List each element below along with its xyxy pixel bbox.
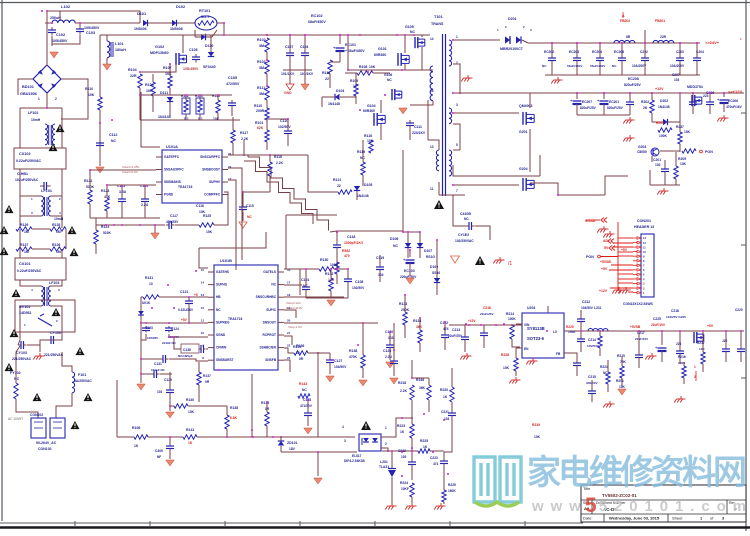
svg-text:T101: T101 <box>434 15 443 19</box>
svg-text:L231: L231 <box>594 306 601 310</box>
svg-text:C138: C138 <box>183 348 191 352</box>
svg-text:2.2K: 2.2K <box>276 161 284 165</box>
svg-text:R111: R111 <box>257 86 265 90</box>
svg-text:90-264V_AC: 90-264V_AC <box>36 441 57 445</box>
svg-text:GATEHS: GATEHS <box>216 270 229 274</box>
svg-text:R127: R127 <box>20 243 28 247</box>
svg-text:NC: NC <box>410 30 415 34</box>
svg-text:SNSOUT: SNSOUT <box>263 320 276 324</box>
svg-text:100R: 100R <box>330 263 339 267</box>
svg-text:+12V: +12V <box>655 87 664 91</box>
svg-text:0.22U/26V: 0.22U/26V <box>178 308 194 312</box>
svg-text:2.2U: 2.2U <box>385 355 393 359</box>
svg-text:C105: C105 <box>228 76 237 80</box>
svg-text:14D561: 14D561 <box>19 311 32 315</box>
svg-text:CY1E2: CY1E2 <box>458 233 469 237</box>
svg-text:R140: R140 <box>186 398 194 402</box>
svg-text:10K: 10K <box>503 366 510 370</box>
svg-text:F101: F101 <box>78 373 86 377</box>
svg-text:R136: R136 <box>296 344 304 348</box>
svg-text:C8050: C8050 <box>637 150 647 154</box>
svg-text:Vstart=0.9V: Vstart=0.9V <box>122 170 138 174</box>
svg-text:SNSAUXPFC: SNSAUXPFC <box>164 168 184 172</box>
svg-text:w w w . 5 2 0 1 0 1 . c o m: w w w . 5 2 0 1 0 1 . c o m <box>531 498 746 515</box>
svg-text:100K: 100K <box>508 317 516 321</box>
svg-text:RV101: RV101 <box>19 305 31 309</box>
svg-text:G201: G201 <box>519 130 528 134</box>
svg-text:NC: NC <box>542 64 547 68</box>
svg-text:GATEPFC: GATEPFC <box>164 155 180 159</box>
svg-text:FY102: FY102 <box>10 371 21 375</box>
svg-text:EC206: EC206 <box>728 99 738 103</box>
svg-text:160K: 160K <box>448 489 456 493</box>
svg-text:1N4148: 1N4148 <box>357 194 369 198</box>
svg-text:U01K: U01K <box>142 301 151 305</box>
svg-text:10K: 10K <box>188 410 195 414</box>
svg-text:474: 474 <box>443 327 449 331</box>
svg-text:C101: C101 <box>301 278 309 282</box>
svg-text:PON: PON <box>705 150 713 154</box>
svg-text:0.22uF/250VAC: 0.22uF/250VAC <box>17 269 42 273</box>
svg-text:21: 21 <box>287 331 291 335</box>
svg-text:CON102: CON102 <box>30 413 43 417</box>
svg-text:1N5408: 1N5408 <box>170 27 183 31</box>
svg-text:R224: R224 <box>400 481 408 485</box>
svg-text:G106: G106 <box>384 73 392 77</box>
svg-text:R223: R223 <box>397 424 405 428</box>
svg-text:R225: R225 <box>420 439 428 443</box>
svg-text:SUPREG: SUPREG <box>216 320 230 324</box>
svg-text:+12V: +12V <box>468 319 476 323</box>
svg-text:C213: C213 <box>452 328 460 332</box>
svg-text:SNSBURST: SNSBURST <box>216 358 234 362</box>
svg-text:C127: C127 <box>334 359 342 363</box>
svg-text:15: 15 <box>201 268 205 272</box>
svg-text:R110: R110 <box>254 104 262 108</box>
svg-text:NC: NC <box>216 308 221 312</box>
svg-text:R109: R109 <box>350 79 358 83</box>
svg-text:R248: R248 <box>416 378 424 382</box>
svg-text:SNSBOOST: SNSBOOST <box>202 168 220 172</box>
svg-text:470K: 470K <box>349 355 358 359</box>
svg-text:221/250VAC: 221/250VAC <box>12 357 32 361</box>
svg-text:R121: R121 <box>333 178 341 182</box>
svg-text:56uF/160V: 56uF/160V <box>590 64 606 68</box>
svg-text:EC202: EC202 <box>544 50 554 54</box>
svg-text:EL817: EL817 <box>352 454 362 458</box>
svg-text:/1: /1 <box>508 261 512 267</box>
svg-text:7: 7 <box>456 189 458 193</box>
svg-text:D107: D107 <box>424 249 432 253</box>
svg-text:C212: C212 <box>582 300 590 304</box>
svg-text:C117: C117 <box>170 214 178 218</box>
svg-text:101nF NC: 101nF NC <box>151 368 166 372</box>
svg-text:GATELS: GATELS <box>263 270 276 274</box>
svg-text:R217: R217 <box>697 341 705 345</box>
svg-text:102/250VAC: 102/250VAC <box>455 239 474 243</box>
svg-text:Wednesday, June 03, 2015: Wednesday, June 03, 2015 <box>609 516 660 521</box>
svg-text:820uF/25V: 820uF/25V <box>624 83 642 87</box>
svg-text:R130: R130 <box>320 258 328 262</box>
svg-text:R221: R221 <box>600 365 608 369</box>
svg-text:5: 5 <box>585 494 597 517</box>
svg-text:1: 1 <box>694 365 696 369</box>
svg-text:100K: 100K <box>678 361 686 365</box>
svg-text:2.2K: 2.2K <box>400 389 408 393</box>
svg-text:NC: NC <box>302 388 307 392</box>
svg-text:470uF/16V: 470uF/16V <box>726 105 743 109</box>
svg-text:820uF/25V: 820uF/25V <box>607 106 624 110</box>
svg-text:22: 22 <box>337 184 341 188</box>
svg-text:Vstart=1.25V: Vstart=1.25V <box>122 165 139 169</box>
svg-text:CON102: CON102 <box>38 447 52 451</box>
svg-text:R101: R101 <box>255 121 263 125</box>
svg-text:R204: R204 <box>656 121 664 125</box>
svg-text:R143: R143 <box>299 382 307 386</box>
svg-text:474: 474 <box>433 462 439 466</box>
svg-text:103: 103 <box>157 390 163 394</box>
svg-text:62K: 62K <box>257 126 264 130</box>
svg-text:NC: NC <box>14 377 20 381</box>
svg-text:101/1KV: 101/1KV <box>281 72 295 76</box>
svg-text:TEA1716: TEA1716 <box>228 317 242 321</box>
svg-text:D106: D106 <box>390 237 398 241</box>
svg-text:102/50V: 102/50V <box>278 125 291 129</box>
svg-text:471/50V: 471/50V <box>300 404 313 408</box>
svg-text:SOT23-6: SOT23-6 <box>527 336 545 341</box>
svg-text:FB201: FB201 <box>655 19 665 23</box>
svg-text:U203: U203 <box>527 306 535 310</box>
svg-text:PGND: PGND <box>164 193 174 197</box>
svg-text:LF101: LF101 <box>41 189 52 193</box>
svg-text:10K: 10K <box>699 347 705 351</box>
svg-text:C223: C223 <box>430 456 438 460</box>
svg-text:10A/200V: 10A/200V <box>670 64 685 68</box>
svg-text:R124: R124 <box>101 225 109 229</box>
svg-text:C207: C207 <box>672 73 680 77</box>
svg-text:SNSMAINS: SNSMAINS <box>164 180 181 184</box>
svg-text:R125: R125 <box>203 214 211 218</box>
svg-text:G104: G104 <box>367 104 376 108</box>
svg-text:U101B: U101B <box>220 259 232 263</box>
svg-text:R138: R138 <box>230 406 238 410</box>
svg-text:102/50V: 102/50V <box>352 286 365 290</box>
svg-text:36K: 36K <box>419 386 426 390</box>
svg-text:+5VSB: +5VSB <box>630 325 641 329</box>
svg-text:472/50V: 472/50V <box>226 82 240 86</box>
svg-text:10K: 10K <box>369 65 376 69</box>
svg-text:R110: R110 <box>85 87 93 91</box>
svg-text:75K: 75K <box>620 360 627 364</box>
svg-text:C201: C201 <box>653 158 661 162</box>
svg-text:AC 100/9T: AC 100/9T <box>8 417 23 421</box>
svg-text:R214: R214 <box>506 312 514 316</box>
svg-text:3M: 3M <box>259 44 264 48</box>
svg-text:8R: 8R <box>626 35 631 39</box>
svg-text:R118: R118 <box>274 155 282 159</box>
svg-text:EC102: EC102 <box>311 14 323 18</box>
svg-text:EC206: EC206 <box>614 50 624 54</box>
svg-text:D102: D102 <box>176 5 185 9</box>
svg-text:EC207: EC207 <box>582 100 592 104</box>
svg-text:13: 13 <box>430 145 434 149</box>
svg-text:NC: NC <box>612 64 617 68</box>
svg-text:NC: NC <box>247 215 252 219</box>
svg-text:22uF/25V: 22uF/25V <box>480 312 495 316</box>
svg-text:103: 103 <box>674 78 680 82</box>
svg-text:103: 103 <box>401 455 407 459</box>
svg-text:SY8113B: SY8113B <box>527 326 545 331</box>
svg-text:HB: HB <box>216 295 221 299</box>
svg-text:SUPHS: SUPHS <box>216 283 227 287</box>
svg-text:104/25V G205: 104/25V G205 <box>666 315 686 319</box>
svg-text:R116: R116 <box>364 134 372 138</box>
svg-text:R218: R218 <box>398 381 406 385</box>
svg-text:10K: 10K <box>680 162 687 166</box>
svg-text:6.8K: 6.8K <box>230 416 238 420</box>
svg-text:D111: D111 <box>160 91 168 95</box>
svg-text:3: 3 <box>344 439 346 443</box>
svg-text:家电维修资料网: 家电维修资料网 <box>527 454 747 492</box>
svg-text:R542: R542 <box>342 249 350 253</box>
svg-text:L201: L201 <box>380 460 388 464</box>
svg-text:C214: C214 <box>588 338 596 342</box>
svg-text:SS36: SS36 <box>432 271 440 275</box>
svg-text:C103: C103 <box>86 31 95 35</box>
svg-text:101/1KV: 101/1KV <box>300 72 314 76</box>
svg-text:R141: R141 <box>186 428 194 432</box>
svg-text:C216: C216 <box>483 306 491 310</box>
svg-text:Sheet: Sheet <box>672 516 683 521</box>
svg-text:56uF/160V: 56uF/160V <box>567 64 583 68</box>
svg-text:RS1G: RS1G <box>426 255 435 259</box>
svg-text:Vstart=110V: Vstart=110V <box>286 306 302 310</box>
svg-text:NC: NC <box>387 78 392 82</box>
svg-text:R201: R201 <box>616 379 624 383</box>
svg-text:C107: C107 <box>285 45 293 49</box>
svg-text:C225: C225 <box>653 317 661 321</box>
svg-text:60R360: 60R360 <box>374 53 386 57</box>
svg-text:+5: +5 <box>194 293 198 297</box>
svg-text:G204: G204 <box>519 167 528 171</box>
svg-text:1N5406: 1N5406 <box>134 27 147 31</box>
svg-text:22R: 22R <box>660 35 667 39</box>
svg-text:C131: C131 <box>154 362 162 366</box>
svg-text:R131: R131 <box>145 276 153 280</box>
svg-text:C116: C116 <box>196 204 204 208</box>
svg-text:NC: NC <box>271 283 276 287</box>
svg-text:FB: FB <box>556 352 561 356</box>
svg-text:R108: R108 <box>359 65 367 69</box>
svg-text:5V: 5V <box>604 246 609 250</box>
svg-text:104/50V: 104/50V <box>581 306 594 310</box>
svg-text:+5V: +5V <box>181 318 188 322</box>
svg-text:16: 16 <box>430 89 434 93</box>
svg-text:1K: 1K <box>188 441 193 445</box>
svg-text:Vstup=12V: Vstup=12V <box>286 301 301 305</box>
svg-text:22uF/10V: 22uF/10V <box>635 337 648 341</box>
svg-text:BD101: BD101 <box>22 85 34 89</box>
svg-text:PON: PON <box>586 255 594 259</box>
svg-text:3M: 3M <box>259 66 264 70</box>
svg-text:EC103: EC103 <box>404 269 415 273</box>
svg-text:C121: C121 <box>180 290 188 294</box>
svg-text:18V: 18V <box>289 447 296 451</box>
svg-text:R229: R229 <box>566 325 574 329</box>
svg-text:CY103: CY103 <box>16 351 27 355</box>
svg-text:TRANS: TRANS <box>431 22 444 26</box>
svg-text:105/26V: 105/26V <box>147 336 158 340</box>
svg-text:D105: D105 <box>364 183 372 187</box>
svg-text:22: 22 <box>287 344 291 348</box>
svg-text:G101: G101 <box>378 47 387 51</box>
svg-text:10K: 10K <box>165 72 172 76</box>
svg-text:CX102: CX102 <box>19 152 31 156</box>
svg-text:820uF/25V: 820uF/25V <box>580 106 597 110</box>
svg-text:R225: R225 <box>448 483 456 487</box>
svg-text:R114: R114 <box>322 71 330 75</box>
svg-text:SO-7: SO-7 <box>201 15 209 19</box>
svg-text:LF103: LF103 <box>49 281 59 285</box>
svg-text:1000pF/1KV: 1000pF/1KV <box>344 241 364 245</box>
svg-text:DIP4-2.54K1B: DIP4-2.54K1B <box>344 459 365 463</box>
svg-text:>>24V+: >>24V+ <box>705 40 720 45</box>
svg-text:2: 2 <box>55 97 57 101</box>
svg-text:5A/250VAC: 5A/250VAC <box>74 379 92 383</box>
svg-text:C410B: C410B <box>460 212 471 216</box>
svg-text:10S/450V: 10S/450V <box>183 67 199 71</box>
svg-text:1: 1 <box>385 426 387 430</box>
svg-text:105/450V: 105/450V <box>84 26 100 30</box>
svg-text:C108: C108 <box>355 280 363 284</box>
svg-text:COMPPFC: COMPPFC <box>204 193 221 197</box>
svg-text:68uF/450V: 68uF/450V <box>308 20 326 24</box>
svg-text:223: 223 <box>703 94 709 98</box>
svg-text:SGND: SGND <box>216 333 226 337</box>
svg-text:3: 3 <box>456 103 458 107</box>
svg-text:RCPROT: RCPROT <box>263 333 277 337</box>
svg-text:C102: C102 <box>56 33 65 37</box>
svg-text:+5V: +5V <box>601 267 608 271</box>
svg-text:R138: R138 <box>349 349 357 353</box>
svg-text:D104: D104 <box>336 89 344 93</box>
svg-text:10K: 10K <box>619 385 626 389</box>
svg-text:R228: R228 <box>501 353 509 357</box>
svg-text:R106: R106 <box>132 426 140 430</box>
svg-text:R104: R104 <box>128 68 137 72</box>
svg-text:EC203: EC203 <box>569 50 579 54</box>
svg-text:D202: D202 <box>660 99 668 103</box>
svg-text:223/1KV: 223/1KV <box>412 131 426 135</box>
svg-text:CON201: CON201 <box>637 219 651 223</box>
svg-text:102uF/250VAC: 102uF/250VAC <box>15 178 39 182</box>
svg-text:4: 4 <box>342 425 344 429</box>
svg-text:D101: D101 <box>137 12 146 16</box>
svg-text:NC/18/5pF: NC/18/5pF <box>178 354 193 358</box>
svg-text:C221: C221 <box>441 410 449 414</box>
svg-text:R129: R129 <box>20 223 28 227</box>
svg-text:D110: D110 <box>205 44 213 48</box>
svg-text:+5V: +5V <box>707 324 714 328</box>
svg-text:C115: C115 <box>246 204 254 208</box>
svg-text:2.2U: 2.2U <box>141 203 149 207</box>
svg-text:EC204: EC204 <box>592 50 602 54</box>
svg-text:C112: C112 <box>109 133 117 137</box>
svg-text:11: 11 <box>430 187 434 191</box>
svg-text:EN: EN <box>524 347 529 351</box>
svg-text:G102: G102 <box>155 45 164 49</box>
svg-text:SOAD: SOAD <box>585 219 596 223</box>
svg-text:>>+12V: >>+12V <box>728 89 742 94</box>
svg-text:C110: C110 <box>280 119 288 123</box>
svg-text:EC201: EC201 <box>609 100 619 104</box>
svg-text:SNSFB: SNSFB <box>265 358 277 362</box>
svg-text:250uH: 250uH <box>50 16 61 20</box>
svg-text:10K: 10K <box>534 435 541 439</box>
svg-text:+5VSB: +5VSB <box>600 260 611 264</box>
svg-text:1K: 1K <box>134 444 139 448</box>
svg-text:221/250VAC: 221/250VAC <box>44 353 64 357</box>
svg-text:R133: R133 <box>399 302 407 306</box>
svg-text:1K: 1K <box>423 445 428 449</box>
svg-text:C215: C215 <box>588 375 596 379</box>
svg-text:CY106: CY106 <box>50 331 61 335</box>
svg-text:10mH: 10mH <box>31 118 41 122</box>
svg-text:R139: R139 <box>261 401 269 405</box>
svg-text:10K: 10K <box>684 130 691 134</box>
svg-text:223: 223 <box>676 342 682 346</box>
svg-text:MDD3754: MDD3754 <box>687 85 703 89</box>
svg-text:10K: 10K <box>88 93 95 97</box>
svg-text:C129: C129 <box>164 378 172 382</box>
svg-text:10K: 10K <box>206 230 213 234</box>
svg-text:R103: R103 <box>257 60 266 64</box>
svg-text:U101A: U101A <box>166 145 178 149</box>
svg-text:FB202: FB202 <box>620 19 630 23</box>
svg-text:C125: C125 <box>383 349 391 353</box>
svg-text:CPMIN: CPMIN <box>216 346 227 350</box>
svg-text:1: 1 <box>456 35 458 39</box>
svg-text:L102: L102 <box>61 4 71 9</box>
svg-text:Vsup:1.5V: Vsup:1.5V <box>288 325 302 329</box>
svg-text:D201: D201 <box>508 17 517 21</box>
svg-text:100K: 100K <box>659 134 668 138</box>
svg-text:22uF/10V: 22uF/10V <box>651 323 666 327</box>
svg-text:5: 5 <box>456 143 458 147</box>
svg-text:1N4148: 1N4148 <box>158 115 171 119</box>
svg-text:C106: C106 <box>189 48 198 52</box>
svg-text:C202: C202 <box>640 50 648 54</box>
svg-text:G105: G105 <box>405 25 414 29</box>
svg-text:TLA31: TLA31 <box>379 465 389 469</box>
svg-text:NF: NF <box>157 455 161 459</box>
svg-text:10: 10 <box>201 331 205 335</box>
svg-text:22: 22 <box>325 77 329 81</box>
svg-text:R122: R122 <box>84 179 92 183</box>
svg-text:SSHBC/EN: SSHBC/EN <box>260 346 277 350</box>
svg-text:ZD101: ZD101 <box>287 441 298 445</box>
svg-text:SNSCURHBC: SNSCURHBC <box>256 295 277 299</box>
svg-text:RT101: RT101 <box>199 9 210 13</box>
svg-text:C118: C118 <box>347 235 355 239</box>
svg-text:474/25V: 474/25V <box>166 220 179 224</box>
svg-text:1K: 1K <box>400 430 405 434</box>
svg-text:17: 17 <box>287 281 291 285</box>
svg-text:10KF: 10KF <box>401 487 409 491</box>
svg-text:+5V: +5V <box>621 248 628 252</box>
svg-text:R117: R117 <box>240 131 248 135</box>
svg-text:SNSCURPFC: SNSCURPFC <box>200 155 221 159</box>
